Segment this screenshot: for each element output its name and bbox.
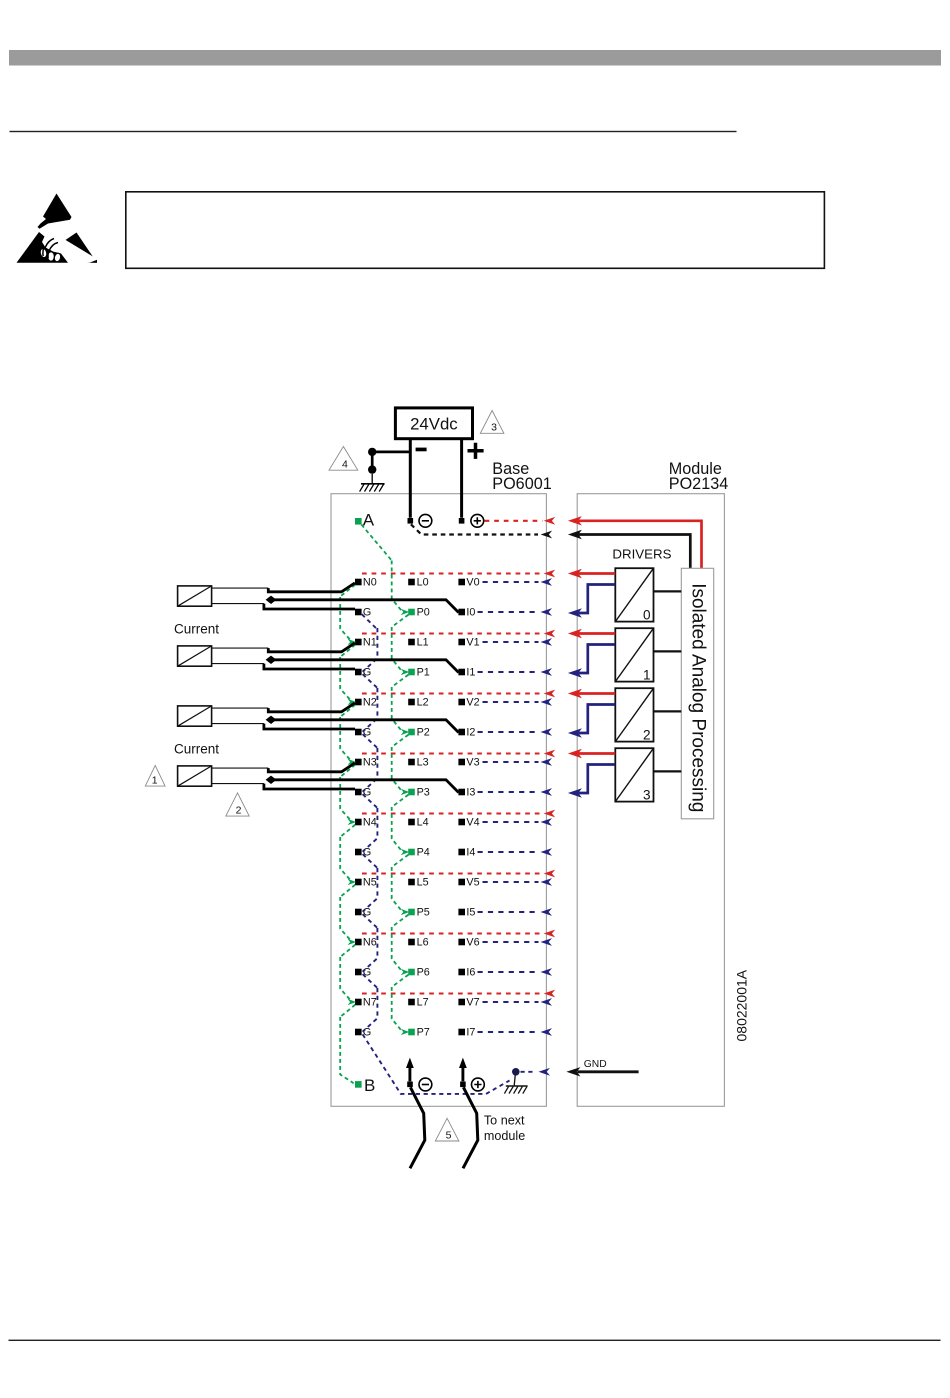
node B <box>355 1076 375 1095</box>
svg-text:P5: P5 <box>417 907 430 919</box>
svg-text:P1: P1 <box>417 667 430 679</box>
current sensor 3 <box>178 766 212 786</box>
svg-text:L1: L1 <box>417 637 429 649</box>
arrow up plus <box>459 1058 467 1082</box>
arrow up minus <box>406 1058 414 1082</box>
wire I5 navy dashed <box>478 908 553 916</box>
wire navy G bus to G of channel 2 <box>363 688 378 748</box>
wire sensor 0 to I0 <box>271 600 459 613</box>
svg-text:V7: V7 <box>466 997 479 1009</box>
pin P7 <box>408 1027 430 1039</box>
wire V2 navy dashed <box>483 698 553 706</box>
wire sensor 3 to I3 <box>271 780 459 793</box>
wire module return black <box>568 530 690 569</box>
pin L6 <box>408 937 428 949</box>
pin L1 <box>408 637 428 649</box>
driver U1 <box>615 628 653 682</box>
isolated analog processing box U-IAP <box>681 568 713 819</box>
pin N2 <box>355 697 377 709</box>
svg-text:L2: L2 <box>417 697 429 709</box>
wire channel 7 red dashed <box>362 990 555 998</box>
wire green N bus to N3 <box>340 717 356 777</box>
note triangle 2 <box>226 793 249 817</box>
wire supply minus black dashed <box>411 524 552 538</box>
svg-text:P4: P4 <box>417 847 430 859</box>
pin I1 <box>458 667 475 679</box>
svg-text:I2: I2 <box>466 727 475 739</box>
pin V3 <box>458 757 479 769</box>
wire channel 1 red dashed <box>362 630 555 638</box>
svg-text:N5: N5 <box>363 877 377 889</box>
svg-text:3: 3 <box>643 787 651 802</box>
pin V5 <box>458 877 479 889</box>
cable sensor 1 shield lines <box>212 648 269 664</box>
warning note box <box>126 192 825 268</box>
pin P3 <box>408 787 430 799</box>
svg-text:0: 0 <box>643 607 651 622</box>
svg-text:N3: N3 <box>363 757 377 769</box>
module box PO2134 <box>577 494 724 1107</box>
pin N7 <box>355 997 377 1009</box>
wire driver 3 red output <box>568 749 615 758</box>
pin P1 <box>408 667 430 679</box>
pin V0 <box>458 577 479 589</box>
wire green N bus to N6 <box>340 897 356 957</box>
pin G channel 6 <box>355 967 371 979</box>
pin P6 <box>408 967 430 979</box>
chassis ground symbol <box>504 1068 527 1094</box>
svg-text:08022001A: 08022001A <box>734 969 750 1041</box>
svg-text:Current: Current <box>174 741 219 756</box>
wire channel 2 red dashed <box>362 690 555 698</box>
wire to next module minus <box>410 1087 425 1168</box>
wire module supply red <box>568 516 702 568</box>
svg-text:N6: N6 <box>363 937 377 949</box>
svg-text:PO6001: PO6001 <box>492 475 551 493</box>
svg-text:L7: L7 <box>417 997 429 1009</box>
pin P0 <box>408 607 430 619</box>
wire 24Vdc plus lead <box>460 439 463 518</box>
wire V0 navy dashed <box>483 578 553 586</box>
wire sensor 1 to I1 <box>271 660 459 673</box>
wire navy ground to GND <box>521 1068 551 1076</box>
wire V7 navy dashed <box>483 998 553 1006</box>
wire green P bus to P5 <box>392 867 410 927</box>
pin L3 <box>408 757 428 769</box>
svg-text:5: 5 <box>446 1129 452 1141</box>
wire green N bus to N2 <box>340 657 356 717</box>
label Module PO2134 <box>669 460 728 493</box>
junction dot <box>368 448 376 456</box>
note triangle 4 <box>329 447 358 471</box>
current sensor 0 <box>178 586 212 606</box>
driver U2 <box>615 688 653 742</box>
wire I1 navy dashed <box>478 668 553 676</box>
wire driver 3 return navy <box>568 765 615 798</box>
cable junction 2 <box>266 716 277 724</box>
wire green P bus to P4 <box>392 807 410 867</box>
note triangle 5 <box>435 1118 459 1141</box>
wire driver 0 to processing <box>654 590 682 592</box>
pin plus terminal bottom <box>460 1078 484 1091</box>
pin N4 <box>355 817 377 829</box>
wire sensor 2 to G <box>264 724 355 729</box>
base box PO6001 <box>331 494 546 1107</box>
wire green P bus from A <box>361 525 391 561</box>
node A <box>355 511 375 530</box>
label To next module <box>484 1113 525 1142</box>
pin N1 <box>355 637 377 649</box>
driver U3 <box>615 748 653 802</box>
svg-text:L3: L3 <box>417 757 429 769</box>
note triangle 3 <box>480 411 504 434</box>
pin N3 <box>355 757 377 769</box>
pin I7 <box>458 1027 475 1039</box>
wire driver 1 to processing <box>654 650 682 652</box>
wire driver 3 to processing <box>654 770 682 772</box>
pin L4 <box>408 817 428 829</box>
svg-text:I6: I6 <box>466 967 475 979</box>
svg-text:V6: V6 <box>466 937 479 949</box>
plus polarity label <box>468 443 484 459</box>
wire green P bus to P1 <box>392 627 410 687</box>
wire navy G bus from G0 <box>362 614 378 629</box>
label Current (channel 2) <box>174 741 219 756</box>
wire sensor 2 to N2 <box>268 703 355 712</box>
wire green N bus to N7 <box>340 957 356 1017</box>
wire sensor 3 to N3 <box>268 763 355 772</box>
pin P2 <box>408 727 430 739</box>
wire I6 navy dashed <box>478 968 553 976</box>
wire green P bus to P0 <box>392 561 410 628</box>
svg-text:V2: V2 <box>466 697 479 709</box>
cable sensor 2 shield lines <box>212 708 269 724</box>
wire sensor 1 to N1 <box>268 643 355 652</box>
wire driver 2 return navy <box>568 705 615 738</box>
power supply 24Vdc <box>395 408 472 439</box>
note triangle 1 <box>145 765 165 786</box>
svg-text:N2: N2 <box>363 697 377 709</box>
wire green N bus to N4 <box>340 777 356 837</box>
svg-text:N1: N1 <box>363 637 377 649</box>
pin G channel 5 <box>355 907 371 919</box>
pin minus terminal bottom <box>407 1078 432 1091</box>
wire driver 0 return navy <box>568 585 615 618</box>
pin P4 <box>408 847 430 859</box>
pin L0 <box>408 577 428 589</box>
svg-text:V3: V3 <box>466 757 479 769</box>
wire driver 1 red output <box>568 629 615 638</box>
wire V4 navy dashed <box>483 818 553 826</box>
wire channel 5 red dashed <box>362 870 555 878</box>
svg-text:1: 1 <box>152 775 158 787</box>
svg-text:4: 4 <box>342 459 348 471</box>
pin V7 <box>458 997 479 1009</box>
wire navy G bus to G of channel 5 <box>363 868 378 928</box>
svg-text:2: 2 <box>236 805 242 817</box>
svg-text:N4: N4 <box>363 817 377 829</box>
svg-text:I3: I3 <box>466 787 475 799</box>
pin G channel 3 <box>355 787 371 799</box>
wire green P bus to P3 <box>392 747 410 807</box>
svg-text:I0: I0 <box>466 607 475 619</box>
svg-text:I1: I1 <box>466 667 475 679</box>
wire channel 3 red dashed <box>362 750 555 758</box>
wire navy G bus to chassis ground <box>363 1034 510 1094</box>
wire I7 navy dashed <box>478 1028 553 1036</box>
svg-text:V4: V4 <box>466 817 479 829</box>
svg-text:P0: P0 <box>417 607 430 619</box>
pin N5 <box>355 877 377 889</box>
svg-text:To next: To next <box>484 1113 525 1127</box>
svg-text:V0: V0 <box>466 577 479 589</box>
svg-text:V1: V1 <box>466 637 479 649</box>
pin N0 <box>355 577 377 589</box>
wire channel 6 red dashed <box>362 930 555 938</box>
cable sensor 3 shield lines <box>212 768 269 784</box>
svg-text:24Vdc: 24Vdc <box>410 415 458 434</box>
pin G channel 1 <box>355 667 371 679</box>
pin P5 <box>408 907 430 919</box>
label drawing number 08022001A <box>734 969 750 1041</box>
pin V6 <box>458 937 479 949</box>
minus polarity label <box>416 448 427 452</box>
header bar <box>9 50 941 66</box>
pin V4 <box>458 817 479 829</box>
svg-text:DRIVERS: DRIVERS <box>612 546 671 561</box>
svg-text:2: 2 <box>643 727 651 742</box>
pin I4 <box>458 847 475 859</box>
svg-text:PO2134: PO2134 <box>669 475 728 493</box>
wire V5 navy dashed <box>483 878 553 886</box>
label GND <box>584 1059 607 1070</box>
svg-text:P3: P3 <box>417 787 430 799</box>
wire GND input arrow <box>566 1067 638 1076</box>
svg-text:Current: Current <box>174 621 219 636</box>
wire driver 2 to processing <box>654 710 682 712</box>
label DRIVERS <box>612 546 671 561</box>
wire green P bus to P7 <box>392 987 410 1035</box>
wire earth branch <box>372 452 410 470</box>
svg-text:1: 1 <box>643 667 651 682</box>
svg-text:L4: L4 <box>417 817 429 829</box>
svg-text:P2: P2 <box>417 727 430 739</box>
wire to next module plus <box>463 1087 478 1168</box>
driver U0 <box>615 568 653 622</box>
wire green N bus to B <box>340 1017 353 1083</box>
wire 24Vdc minus lead <box>409 439 412 518</box>
svg-text:GND: GND <box>584 1059 607 1070</box>
svg-text:L0: L0 <box>417 577 429 589</box>
pin L2 <box>408 697 428 709</box>
svg-text:P7: P7 <box>417 1027 430 1039</box>
wire channel 0 red dashed <box>362 570 555 578</box>
current sensor 1 <box>178 646 212 666</box>
junction dot <box>368 465 376 473</box>
pin G channel 2 <box>355 727 371 739</box>
wire green N bus to N1 <box>340 597 356 657</box>
pin G channel 0 <box>355 607 371 619</box>
cable junction 3 <box>266 776 277 784</box>
wire sensor 0 to N0 <box>268 583 355 592</box>
svg-text:N0: N0 <box>363 577 377 589</box>
svg-text:B: B <box>364 1076 375 1095</box>
wire green N bus from N0 <box>340 585 355 597</box>
pin plus terminal top <box>459 514 484 527</box>
cable junction 0 <box>266 596 277 604</box>
header rule <box>10 131 737 132</box>
wire green P bus to P6 <box>392 927 410 987</box>
svg-text:P6: P6 <box>417 967 430 979</box>
pin I5 <box>458 907 475 919</box>
pin I0 <box>458 607 475 619</box>
svg-text:module: module <box>484 1129 525 1143</box>
svg-text:L5: L5 <box>417 877 429 889</box>
wire V6 navy dashed <box>483 938 553 946</box>
svg-text:I7: I7 <box>466 1027 475 1039</box>
wire navy G bus to G of channel 4 <box>363 808 378 868</box>
cable junction 1 <box>266 656 277 664</box>
cable sensor 0 shield lines <box>212 588 269 604</box>
svg-text:L6: L6 <box>417 937 429 949</box>
wire driver 2 red output <box>568 689 615 698</box>
pin I2 <box>458 727 475 739</box>
wire V3 navy dashed <box>483 758 553 766</box>
svg-text:N7: N7 <box>363 997 377 1009</box>
ESD warning symbol <box>17 194 98 263</box>
wire navy G bus to G of channel 3 <box>363 748 378 808</box>
svg-text:I4: I4 <box>466 847 475 859</box>
footer rule <box>9 1340 941 1341</box>
pin I3 <box>458 787 475 799</box>
wire sensor 0 to G <box>264 604 355 609</box>
current sensor 2 <box>178 706 212 726</box>
pin G channel 7 <box>355 1027 371 1039</box>
pin V2 <box>458 697 479 709</box>
pin L5 <box>408 877 428 889</box>
wire navy G bus to G of channel 6 <box>363 928 378 988</box>
wire driver 1 return navy <box>568 645 615 678</box>
wire driver 0 red output <box>568 569 615 578</box>
wire navy G bus to G of channel 7 <box>363 988 378 1032</box>
pin minus terminal top <box>408 514 432 527</box>
wire V1 navy dashed <box>483 638 553 646</box>
wire I3 navy dashed <box>478 788 553 796</box>
pin G channel 4 <box>355 847 371 859</box>
wire supply plus red dashed <box>485 517 556 525</box>
wire sensor 1 to G <box>264 664 355 669</box>
wire channel 4 red dashed <box>362 810 555 818</box>
wire navy G bus to G of channel 1 <box>363 628 378 688</box>
svg-text:V5: V5 <box>466 877 479 889</box>
wire green P bus to P2 <box>392 687 410 747</box>
wire I4 navy dashed <box>478 848 553 856</box>
svg-text:3: 3 <box>491 422 497 434</box>
svg-text:I5: I5 <box>466 907 475 919</box>
wire I0 navy dashed <box>478 608 553 616</box>
wire I2 navy dashed <box>478 728 553 736</box>
wire sensor 2 to I2 <box>271 720 459 733</box>
wire sensor 3 to G <box>264 784 355 789</box>
svg-text:A: A <box>363 511 375 530</box>
pin V1 <box>458 637 479 649</box>
svg-text:Isolated Analog Processing: Isolated Analog Processing <box>688 583 709 812</box>
earth ground symbol <box>360 474 385 492</box>
wire green N bus to N5 <box>340 837 356 897</box>
pin I6 <box>458 967 475 979</box>
label Base PO6001 <box>492 460 551 493</box>
pin N6 <box>355 937 377 949</box>
pin L7 <box>408 997 428 1009</box>
label Current (channel 0) <box>174 621 219 636</box>
